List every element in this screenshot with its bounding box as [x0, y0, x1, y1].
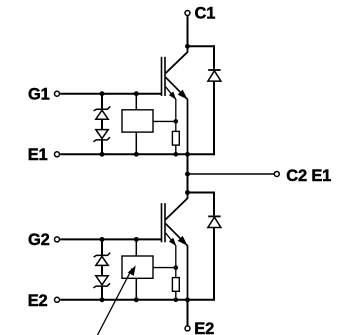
node gate2-box junction: [134, 237, 139, 242]
wire zener2 branch bottom: [101, 286, 103, 300]
node E2-emitter junction: [185, 297, 190, 302]
wire C1 stem: [187, 16, 189, 46]
zener diode ZD1: [94, 106, 111, 119]
resistor R1 sense: [172, 131, 179, 145]
transistor Q2 IGBT body bar: [164, 203, 166, 242]
resistor R2 sense: [172, 278, 179, 292]
wire zener2 branch top: [101, 239, 103, 255]
node box2 output junction: [174, 265, 179, 270]
node collector-2 junction: [185, 190, 190, 195]
wire box1 branch bottom: [135, 132, 137, 154]
node gate2-zener junction: [100, 237, 105, 242]
node E1-zener junction: [100, 152, 105, 157]
wire zener1 branch top: [101, 94, 103, 109]
wire E1-to-C2 link: [187, 154, 189, 192]
wire R1 to emitter rail: [175, 145, 177, 154]
node gate1-box junction: [134, 91, 139, 96]
terminal C1: [185, 11, 190, 16]
wire to C2E1 terminal: [188, 173, 274, 175]
transistor Q2 collector lead: [166, 193, 188, 220]
zener diode ZD4: [93, 276, 110, 288]
svg-text:G2: G2: [28, 231, 50, 249]
svg-text:E2: E2: [194, 320, 214, 335]
svg-text:E2: E2: [28, 292, 48, 310]
svg-text:C2 E1: C2 E1: [286, 167, 331, 185]
terminal C2E1: [274, 172, 279, 177]
wire box2 branch bottom: [135, 278, 137, 300]
zener diode ZD3: [94, 253, 111, 266]
node E1-box junction: [134, 152, 139, 157]
svg-text:C1: C1: [195, 5, 216, 23]
transistor Q1 sense-emitter lead: [166, 87, 176, 132]
annotation arrow to box2: [98, 267, 136, 335]
transistor Q1 emitter arrowhead: [179, 91, 187, 99]
wire zener middle link: [101, 119, 103, 129]
transistor Q2 emitter arrowhead: [179, 237, 187, 245]
wire collector-2 to diode branch: [188, 193, 215, 216]
wire diode-1 branch upper: [213, 45, 215, 69]
transistor Q2 IGBT gate bar: [161, 203, 163, 242]
transistor Q2 sense-emitter lead: [166, 233, 176, 278]
transistor Q1 emitter lead: [166, 77, 188, 154]
node E2-box junction: [134, 297, 139, 302]
wire E2 terminal stem: [187, 300, 189, 326]
wire emitter rail E1: [60, 153, 214, 155]
wire R2 to emitter rail: [175, 291, 177, 300]
transistor Q1 sense-emitter arrowhead: [170, 92, 175, 98]
transistor Q1 IGBT gate bar: [161, 57, 163, 96]
diode D2 freewheel: [208, 216, 221, 227]
node E1-R1 junction: [174, 152, 179, 157]
terminal G1: [55, 91, 60, 96]
node C2E1 junction: [185, 172, 190, 177]
zener diode ZD2: [93, 130, 110, 142]
wire box1 branch top: [135, 94, 137, 110]
wire gate rail G1: [60, 93, 161, 95]
gate protection circuit box 1: [122, 110, 153, 132]
transistor Q1 collector lead: [166, 46, 188, 73]
wire gate rail G2: [60, 238, 161, 240]
wire box2 output: [153, 267, 176, 269]
wire zener2 middle link: [101, 265, 103, 275]
node E2-R2 junction: [174, 298, 179, 303]
wire box1 output: [153, 120, 176, 122]
wire diode-1 branch lower: [213, 81, 215, 155]
wire diode-2 branch upper: [213, 192, 215, 216]
transistor Q2 sense-emitter arrowhead: [170, 239, 175, 245]
transistor Q1 IGBT body bar: [164, 57, 166, 96]
terminal E2 bottom: [185, 326, 190, 331]
wire zener1 branch bottom: [101, 140, 103, 154]
node gate1-zener junction: [100, 91, 105, 96]
gate protection circuit box 2: [122, 256, 153, 278]
wire box2 branch top: [135, 239, 137, 256]
terminal G2: [55, 237, 60, 242]
terminal E2 left: [55, 297, 60, 302]
svg-text:G1: G1: [28, 85, 50, 103]
svg-text:E1: E1: [28, 146, 48, 164]
transistor Q2 emitter lead: [166, 224, 188, 300]
wire emitter rail E2: [60, 299, 214, 301]
terminal E1: [55, 152, 60, 157]
wire collector-1 to diode branch: [188, 46, 215, 69]
wire diode-2 branch lower: [213, 228, 215, 301]
diode D1 freewheel: [208, 70, 221, 81]
node E2-zener junction: [100, 297, 105, 302]
node collector-1 junction: [185, 44, 190, 49]
node E1-emitter junction: [185, 152, 190, 157]
node box1 output junction: [174, 119, 179, 124]
